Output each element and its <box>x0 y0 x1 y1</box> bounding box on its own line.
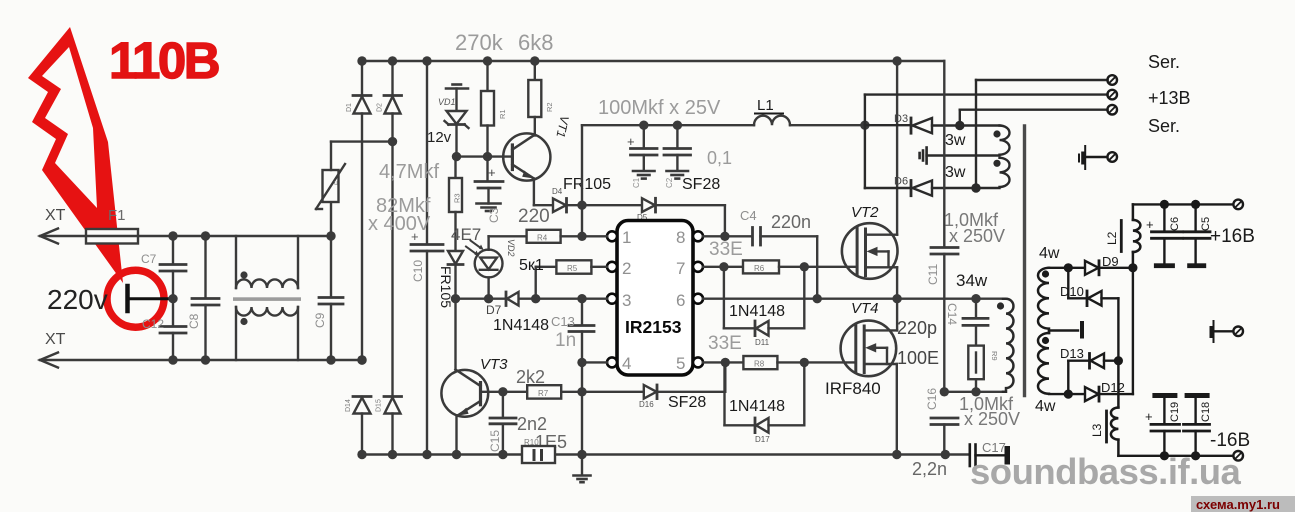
svg-text:D17: D17 <box>755 435 770 444</box>
capacitor C18 <box>1185 393 1210 398</box>
capacitor C3 <box>475 157 503 204</box>
wire: pin4 row <box>582 361 607 363</box>
chassis ground terminal (upper) <box>1084 146 1086 169</box>
wire: top AC line <box>40 235 331 237</box>
svg-text:8: 8 <box>676 228 685 247</box>
svg-text:D1: D1 <box>346 103 353 112</box>
wire: pin8 row / bootstrap <box>703 235 752 237</box>
svg-text:D4: D4 <box>552 187 563 196</box>
svg-text:33E: 33E <box>709 239 743 260</box>
capacitor C8 <box>192 236 219 360</box>
diode D10 <box>1068 268 1118 361</box>
resistor R2 <box>528 61 541 136</box>
svg-text:+: + <box>627 134 635 149</box>
transistor VT3 <box>441 265 488 455</box>
ground below C1 <box>633 171 655 179</box>
svg-text:L1: L1 <box>757 97 774 114</box>
svg-text:D10: D10 <box>1060 284 1084 299</box>
svg-text:4: 4 <box>622 354 631 373</box>
ground above VD1 <box>446 85 468 111</box>
svg-text:C2: C2 <box>665 177 674 188</box>
resistor R7 <box>481 385 583 398</box>
svg-text:x 250V: x 250V <box>964 409 1020 429</box>
diode D6 <box>865 125 1000 196</box>
svg-text:x 400V: x 400V <box>368 213 431 235</box>
capacitor C7 <box>160 236 186 299</box>
svg-text:VT2: VT2 <box>851 204 879 221</box>
pin 4 <box>607 357 617 367</box>
svg-text:2k2: 2k2 <box>516 367 545 387</box>
resistor R1 <box>481 61 494 157</box>
svg-text:R9: R9 <box>990 351 999 361</box>
svg-text:R8: R8 <box>754 360 765 369</box>
capacitor C1 100Mkf <box>631 125 658 171</box>
wire: Vcc aux rail to L1 <box>582 124 754 126</box>
svg-text:3w: 3w <box>945 164 966 181</box>
diode D15 <box>384 397 402 455</box>
junction dots top rail <box>357 56 902 146</box>
junction dots AC input <box>168 231 210 364</box>
svg-text:FR105: FR105 <box>563 176 611 193</box>
svg-text:Ser.: Ser. <box>1148 116 1180 136</box>
capacitor C9 <box>319 236 343 360</box>
LED VD2 <box>466 236 503 298</box>
zener diode VD1 12v <box>445 111 469 157</box>
svg-text:C16: C16 <box>925 388 939 410</box>
svg-text:2: 2 <box>622 259 631 278</box>
ground below C2 <box>667 171 689 179</box>
pin 1 <box>607 231 617 241</box>
svg-text:C3: C3 <box>487 207 501 223</box>
svg-text:C18: C18 <box>1200 402 1212 422</box>
pin 3 <box>607 294 617 304</box>
diode D5 bootstrap <box>582 198 725 236</box>
ground at aux center tap <box>920 148 927 164</box>
svg-text:6: 6 <box>676 291 685 310</box>
svg-text:1N4148: 1N4148 <box>729 303 785 320</box>
svg-text:R2: R2 <box>545 102 554 112</box>
svg-text:u: u <box>334 180 338 187</box>
svg-text:VD2: VD2 <box>506 239 516 257</box>
svg-text:1N4148: 1N4148 <box>729 398 785 415</box>
transformer core <box>1023 126 1026 396</box>
capacitor C19 <box>1152 393 1177 398</box>
inductor L3 <box>1111 361 1119 456</box>
svg-text:C5: C5 <box>1200 217 1212 231</box>
red circle annotation around mains probe <box>107 270 164 327</box>
svg-text:VT4: VT4 <box>851 300 879 317</box>
svg-text:C11: C11 <box>926 264 940 285</box>
terminal -16B <box>1233 451 1243 461</box>
capacitor C10 (82Mkf x 400V) <box>411 61 443 455</box>
svg-text:4w: 4w <box>1035 398 1056 415</box>
capacitor C12 <box>160 299 186 360</box>
MOSFET VT4 <box>841 321 897 377</box>
svg-text:220n: 220n <box>771 212 811 232</box>
svg-text:4E7: 4E7 <box>451 225 481 244</box>
svg-text:12v: 12v <box>427 129 452 146</box>
svg-text:IR2153: IR2153 <box>625 317 682 337</box>
ground at DC- rail <box>574 455 591 483</box>
svg-text:D9: D9 <box>1102 254 1119 269</box>
wire: node B row (primary bottom) <box>944 391 1003 393</box>
svg-text:C6: C6 <box>1169 217 1181 231</box>
resistor R5 <box>536 260 607 298</box>
svg-text:C7: C7 <box>141 252 157 266</box>
svg-text:5: 5 <box>676 354 685 373</box>
wire: DC+ top rail <box>362 60 944 62</box>
resistor R6 <box>743 260 779 273</box>
svg-text:FR105: FR105 <box>438 266 454 308</box>
svg-text:4,7Mkf: 4,7Mkf <box>379 161 439 183</box>
svg-text:270k: 270k <box>455 30 504 55</box>
svg-text:C13: C13 <box>551 314 575 329</box>
capacitor C13 <box>569 299 594 363</box>
wire: pin7 row gate VT2 <box>703 266 743 268</box>
aux winding 3w+3w <box>1000 126 1010 188</box>
wire: riser Ser (bottom) <box>960 110 1108 126</box>
svg-text:D11: D11 <box>755 338 770 347</box>
svg-text:-16B: -16B <box>1210 430 1250 451</box>
svg-text:+: + <box>488 165 496 180</box>
svg-text:2n2: 2n2 <box>517 414 547 434</box>
diode D9 <box>1049 261 1133 275</box>
terminal +16B <box>1233 200 1243 210</box>
svg-text:C15: C15 <box>488 430 502 452</box>
svg-text:+13B: +13B <box>1148 88 1191 108</box>
terminal Ser (bottom) <box>1107 105 1117 115</box>
svg-text:2,2n: 2,2n <box>912 459 947 479</box>
svg-text:C12: C12 <box>142 317 164 331</box>
fuse F1 <box>86 229 138 244</box>
svg-text:100Mkf x 25V: 100Mkf x 25V <box>598 97 721 119</box>
diode D11 1N4148 (anti-parallel) <box>724 267 804 336</box>
svg-text:34w: 34w <box>956 271 988 290</box>
wire: riser Ser (top) <box>976 80 1108 188</box>
capacitor C15 <box>490 392 516 455</box>
resistor R9 100E <box>968 346 984 380</box>
diode D1 <box>353 61 371 362</box>
svg-text:R4: R4 <box>537 234 548 243</box>
svg-text:C1: C1 <box>632 177 641 188</box>
svg-text:R5: R5 <box>567 264 578 273</box>
svg-text:Ser.: Ser. <box>1148 52 1180 72</box>
svg-text:D12: D12 <box>1101 380 1125 395</box>
wire: +13B line <box>865 95 1108 126</box>
svg-text:4w: 4w <box>1039 245 1060 262</box>
svg-text:D14: D14 <box>345 399 352 412</box>
svg-text:F1: F1 <box>108 207 126 224</box>
capacitor C11 1,0Mkf x 250V <box>931 61 958 392</box>
svg-text:SF28: SF28 <box>668 394 706 411</box>
wire: pin3 row / D7 row <box>456 298 507 300</box>
svg-text:R6: R6 <box>754 264 765 273</box>
transformer T2 primary winding <box>1003 299 1013 392</box>
svg-text:+: + <box>1145 409 1153 424</box>
svg-text:R1: R1 <box>498 109 507 119</box>
svg-text:L2: L2 <box>1105 231 1119 245</box>
svg-text:D15: D15 <box>376 399 383 412</box>
ground below C3 <box>477 204 501 212</box>
node Vcc column <box>581 125 583 236</box>
svg-text:R7: R7 <box>538 389 549 398</box>
wire: -16B rail <box>1118 455 1233 457</box>
svg-text:XT: XT <box>45 207 66 224</box>
pin 8 <box>693 231 703 241</box>
svg-text:3w: 3w <box>945 132 966 149</box>
transformer T2 secondary lower 4w <box>1038 333 1049 394</box>
svg-text:D2: D2 <box>377 103 384 112</box>
pin 2 <box>607 262 617 272</box>
wire: pin5 row gate VT4 <box>703 361 743 363</box>
svg-text:D3: D3 <box>894 113 908 125</box>
common-mode choke T1 <box>236 236 298 360</box>
resistor R4 <box>489 230 607 243</box>
capacitor C2 0,1 <box>664 125 691 171</box>
svg-text:C10: C10 <box>411 260 425 282</box>
svg-text:1N4148: 1N4148 <box>493 317 549 334</box>
svg-text:R3: R3 <box>453 193 462 203</box>
svg-text:C8: C8 <box>187 313 201 329</box>
IC U1 IR2153 <box>617 221 693 376</box>
svg-text:5к1: 5к1 <box>519 257 544 274</box>
pin 7 <box>693 262 703 272</box>
transistor VT1 <box>503 133 553 205</box>
diode D7 1N4148 <box>506 292 519 306</box>
capacitor C16 <box>931 418 958 455</box>
svg-text:C9: C9 <box>313 312 327 328</box>
svg-text:C4: C4 <box>740 208 757 223</box>
inductor L2 <box>1133 204 1141 267</box>
capacitor C17 2,2n <box>970 445 1005 467</box>
svg-text:110B: 110B <box>109 32 219 89</box>
svg-text:C14: C14 <box>945 303 959 325</box>
terminal +13B <box>1107 90 1117 100</box>
capacitor C4 220n <box>753 228 761 246</box>
wire: pin6 row / half-bridge midpoint <box>703 298 1003 300</box>
svg-text:0,1: 0,1 <box>707 148 732 168</box>
wire: bottom AC line <box>40 359 362 361</box>
chassis ground terminal (lower) <box>1213 321 1215 342</box>
svg-text:220: 220 <box>518 206 550 227</box>
resistor R3 <box>449 157 462 251</box>
MOSFET VT2 <box>842 223 898 279</box>
pin 6 <box>693 294 703 304</box>
diode D12 <box>1049 268 1133 401</box>
diode D2 <box>384 61 402 397</box>
svg-text:C19: C19 <box>1169 402 1181 422</box>
diode D17 1N4148 (anti-parallel) <box>725 362 805 432</box>
wire: column pin4 to DC- <box>581 362 583 454</box>
capacitor C14 220p <box>963 299 988 346</box>
svg-text:D13: D13 <box>1060 346 1084 361</box>
wire: +16B rail <box>1133 203 1233 205</box>
diode D14 <box>353 397 371 455</box>
svg-text:VD1: VD1 <box>438 97 456 107</box>
svg-text:1: 1 <box>622 228 631 247</box>
wire: DC- bottom rail <box>362 453 970 455</box>
svg-text:soundbass.if.ua: soundbass.if.ua <box>970 451 1242 492</box>
svg-text:33E: 33E <box>708 333 742 354</box>
svg-text:VT3: VT3 <box>480 356 508 373</box>
svg-text:220v: 220v <box>47 284 108 315</box>
svg-text:6k8: 6k8 <box>518 30 553 55</box>
svg-text:D7: D7 <box>486 303 502 317</box>
svg-text:x 250V: x 250V <box>949 226 1005 246</box>
watermark cxema.my1.ru <box>1191 496 1295 512</box>
secondary center tap terminal <box>1049 329 1078 331</box>
junction dot AC to D14 column <box>357 355 366 364</box>
svg-text:XT: XT <box>45 331 66 348</box>
wire: aux center tap <box>927 154 1000 156</box>
terminal Ser (top) <box>1107 75 1117 85</box>
wire: VD1/R1/R3/C3/VT1 base node <box>457 155 513 157</box>
svg-text:IRF840: IRF840 <box>825 379 881 398</box>
capacitor C6 <box>1152 204 1183 263</box>
varistor RU1 <box>316 142 393 236</box>
svg-text:220p: 220p <box>897 318 937 338</box>
svg-text:SF28: SF28 <box>682 176 720 193</box>
svg-text:L3: L3 <box>1090 423 1104 437</box>
resistor R8 <box>743 356 777 369</box>
svg-text:D6: D6 <box>894 176 908 188</box>
svg-text:+16B: +16B <box>1210 226 1255 247</box>
diode D16 SF28 <box>582 362 725 398</box>
svg-text:схема.my1.ru: схема.my1.ru <box>1196 497 1280 512</box>
svg-text:1n: 1n <box>555 330 576 351</box>
probe symbol inside circle <box>128 286 174 311</box>
diode D3 <box>865 118 1000 133</box>
diode D13 <box>1068 354 1118 395</box>
svg-text:D16: D16 <box>639 400 654 409</box>
capacitor C5 <box>1184 204 1210 263</box>
svg-text:100E: 100E <box>897 348 939 368</box>
diode D4 FR105 <box>553 199 582 213</box>
svg-text:7: 7 <box>676 259 685 278</box>
svg-text:+: + <box>1146 217 1154 232</box>
svg-text:3: 3 <box>622 291 631 310</box>
lightning bolt annotation (red) <box>28 27 123 283</box>
diode D8 FR105 (vertical) <box>448 251 463 265</box>
pin 5 <box>693 357 703 367</box>
transformer T2 secondary upper 4w <box>1038 268 1049 333</box>
